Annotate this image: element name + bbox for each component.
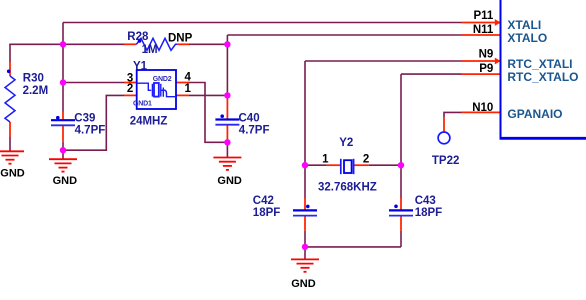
svg-text:18PF: 18PF bbox=[253, 207, 280, 219]
svg-text:2.2M: 2.2M bbox=[23, 85, 49, 97]
pin stub R30 bottom bbox=[9, 122, 11, 137]
wire Y1 pin4 bend to C40 bottom node bbox=[189, 83, 227, 143]
wire Y1 pin1 to node bbox=[189, 94, 227, 96]
capacitor C39 bbox=[51, 120, 75, 125]
junction node C40 bottom GND bbox=[224, 139, 230, 145]
svg-text:24MHZ: 24MHZ bbox=[130, 115, 168, 127]
svg-text:DNP: DNP bbox=[168, 32, 193, 44]
wire C42 bottom to GND node bbox=[304, 231, 306, 260]
wire N10 to TP22 bbox=[444, 112, 462, 117]
svg-text:GPANAIO: GPANAIO bbox=[507, 107, 562, 121]
svg-text:RTC_XTALO: RTC_XTALO bbox=[507, 70, 578, 84]
wire RTC_XTALI net horizontal N9 bbox=[305, 60, 462, 62]
arrow input pin RTC_XTALI bbox=[495, 58, 501, 65]
svg-text:4: 4 bbox=[185, 71, 192, 83]
crystal Y2 bbox=[341, 159, 354, 174]
pin stub Y1 pin2 bbox=[124, 94, 137, 96]
wire XTALO net horizontal bbox=[227, 34, 461, 36]
svg-text:N10: N10 bbox=[472, 102, 493, 114]
pin1 dot R30 bbox=[7, 70, 11, 74]
svg-text:32.768KHZ: 32.768KHZ bbox=[318, 182, 377, 194]
arrow input pin XTALI bbox=[495, 19, 501, 26]
svg-text:1M: 1M bbox=[142, 44, 158, 56]
capacitor C42 bbox=[293, 210, 317, 215]
pin stub C40 top bbox=[226, 99, 228, 120]
pin1 dot C39 bbox=[56, 116, 60, 120]
resistor R30 bbox=[5, 76, 15, 122]
pin stub C39 bottom bbox=[62, 126, 64, 142]
wire XTALI vertical riser x63 bbox=[62, 23, 64, 112]
junction node Y1 pin3 bbox=[60, 79, 66, 85]
pin stub R28 right bbox=[177, 43, 189, 45]
junction node C39 bottom GND bbox=[60, 147, 66, 153]
svg-text:RTC_XTALI: RTC_XTALI bbox=[507, 57, 572, 71]
wire R30 bottom to GND bbox=[9, 137, 11, 152]
pin stub N11 XTALO bbox=[462, 34, 501, 36]
svg-text:N9: N9 bbox=[479, 48, 494, 60]
pin stub C39 top bbox=[62, 112, 64, 120]
ground symbol at C42 bbox=[291, 259, 319, 271]
junction node Y2 pin1 bbox=[302, 162, 308, 168]
wire RTC_XTALO net horizontal P9 bbox=[401, 73, 462, 75]
ground symbol at R30 bbox=[0, 151, 24, 163]
svg-text:2: 2 bbox=[127, 83, 133, 95]
pin1 dot C40 bbox=[220, 114, 224, 118]
svg-text:R28: R28 bbox=[127, 31, 149, 43]
pin stubs red bbox=[10, 23, 501, 231]
pin stub C40 bottom bbox=[226, 125, 228, 142]
pin1 dot C43 bbox=[394, 205, 398, 209]
wire Y1 pin3 to node bbox=[63, 82, 124, 84]
svg-text:18PF: 18PF bbox=[415, 207, 443, 219]
junction node Y2 pin2 bbox=[398, 162, 404, 168]
pin stub P11 XTALI bbox=[462, 22, 501, 24]
svg-text:C43: C43 bbox=[415, 195, 436, 207]
wire RTC bottom horizontal bbox=[305, 246, 401, 248]
svg-text:Y2: Y2 bbox=[339, 137, 353, 149]
crystal Y1 body box bbox=[137, 70, 176, 109]
svg-text:GND1: GND1 bbox=[133, 100, 152, 107]
IC boundary box right bbox=[500, 0, 586, 138]
svg-text:2: 2 bbox=[363, 154, 369, 166]
pin stub P9 RTC_XTALO bbox=[462, 73, 501, 75]
svg-text:XTALI: XTALI bbox=[507, 18, 541, 32]
pin stub TP22 bbox=[443, 118, 445, 132]
pin1 dot R28 bbox=[138, 39, 142, 43]
svg-text:GND: GND bbox=[0, 167, 25, 179]
pin stub C43 top bbox=[400, 198, 402, 210]
svg-text:GND: GND bbox=[291, 278, 316, 290]
ground symbol at C40 bbox=[213, 158, 241, 170]
svg-text:R30: R30 bbox=[23, 73, 44, 85]
crystal Y1 internal symbol bbox=[137, 83, 176, 97]
junction node C42 bottom GND bbox=[302, 244, 308, 250]
ground symbol at C39 bbox=[49, 159, 77, 171]
svg-text:Y1: Y1 bbox=[133, 61, 148, 73]
pin stub N10 GPANAIO bbox=[462, 111, 501, 113]
testpoint TP22 circle bbox=[438, 132, 450, 144]
svg-text:XTALO: XTALO bbox=[507, 31, 547, 45]
svg-text:C39: C39 bbox=[74, 112, 95, 124]
wire RTC_XTALI riser x305 bbox=[304, 61, 306, 198]
wire XTALO riser x227 bbox=[226, 35, 228, 99]
svg-text:C40: C40 bbox=[239, 112, 260, 124]
wire Y1 pin2 bend to GND node bbox=[63, 95, 124, 150]
wire XTALI net horizontal top bbox=[10, 23, 462, 260]
svg-text:C42: C42 bbox=[253, 195, 274, 207]
pin stub Y2 pin1 bbox=[327, 164, 341, 166]
svg-text:TP22: TP22 bbox=[432, 155, 460, 167]
wire C39 bottom to GND bbox=[62, 142, 64, 160]
junction node Y1 pin1 bbox=[224, 92, 230, 98]
junction node XTALO/R28 right bbox=[224, 41, 230, 47]
wire XTALI to R28 left bbox=[63, 43, 124, 45]
svg-text:1: 1 bbox=[322, 154, 329, 166]
svg-text:GND: GND bbox=[217, 175, 242, 187]
pin stub N9 RTC_XTALI bbox=[462, 60, 501, 62]
svg-text:GND2: GND2 bbox=[153, 76, 172, 83]
pin stub Y1 pin4 bbox=[176, 82, 189, 84]
wire R28 right to XTALO riser bbox=[189, 43, 227, 45]
resistor R28 bbox=[136, 38, 177, 50]
wire XTALI to R30 corner bbox=[10, 44, 63, 62]
pin stub Y2 pin2 bbox=[354, 164, 369, 166]
wire C40 bottom to GND bbox=[226, 142, 228, 157]
pin stub C42 bottom bbox=[304, 216, 306, 230]
svg-text:N11: N11 bbox=[473, 24, 494, 36]
wire Y2 pin2 to node bbox=[369, 164, 401, 166]
wire C43 bottom to corner bbox=[400, 231, 402, 247]
pin stub C42 top bbox=[304, 198, 306, 210]
svg-text:4.7PF: 4.7PF bbox=[239, 125, 270, 137]
pin stub R30 top bbox=[9, 62, 11, 76]
svg-text:P11: P11 bbox=[473, 10, 493, 22]
pin stub R28 left bbox=[124, 43, 136, 45]
pin stub C43 bottom bbox=[400, 216, 402, 231]
wire RTC_XTALO riser x401 bbox=[400, 74, 402, 198]
pin stub Y1 pin1 bbox=[176, 94, 189, 96]
svg-text:1: 1 bbox=[185, 83, 192, 95]
capacitor C43 bbox=[389, 210, 413, 215]
svg-text:GND: GND bbox=[53, 175, 78, 187]
wire Y2 pin1 to node bbox=[305, 164, 327, 166]
capacitor C40 bbox=[215, 120, 239, 125]
pin stub Y1 pin3 bbox=[124, 82, 137, 84]
svg-text:P9: P9 bbox=[479, 63, 493, 75]
junction node XTALI/R28 bbox=[60, 41, 66, 47]
svg-text:4.7PF: 4.7PF bbox=[75, 125, 106, 137]
pin1 dot C42 bbox=[306, 205, 310, 209]
